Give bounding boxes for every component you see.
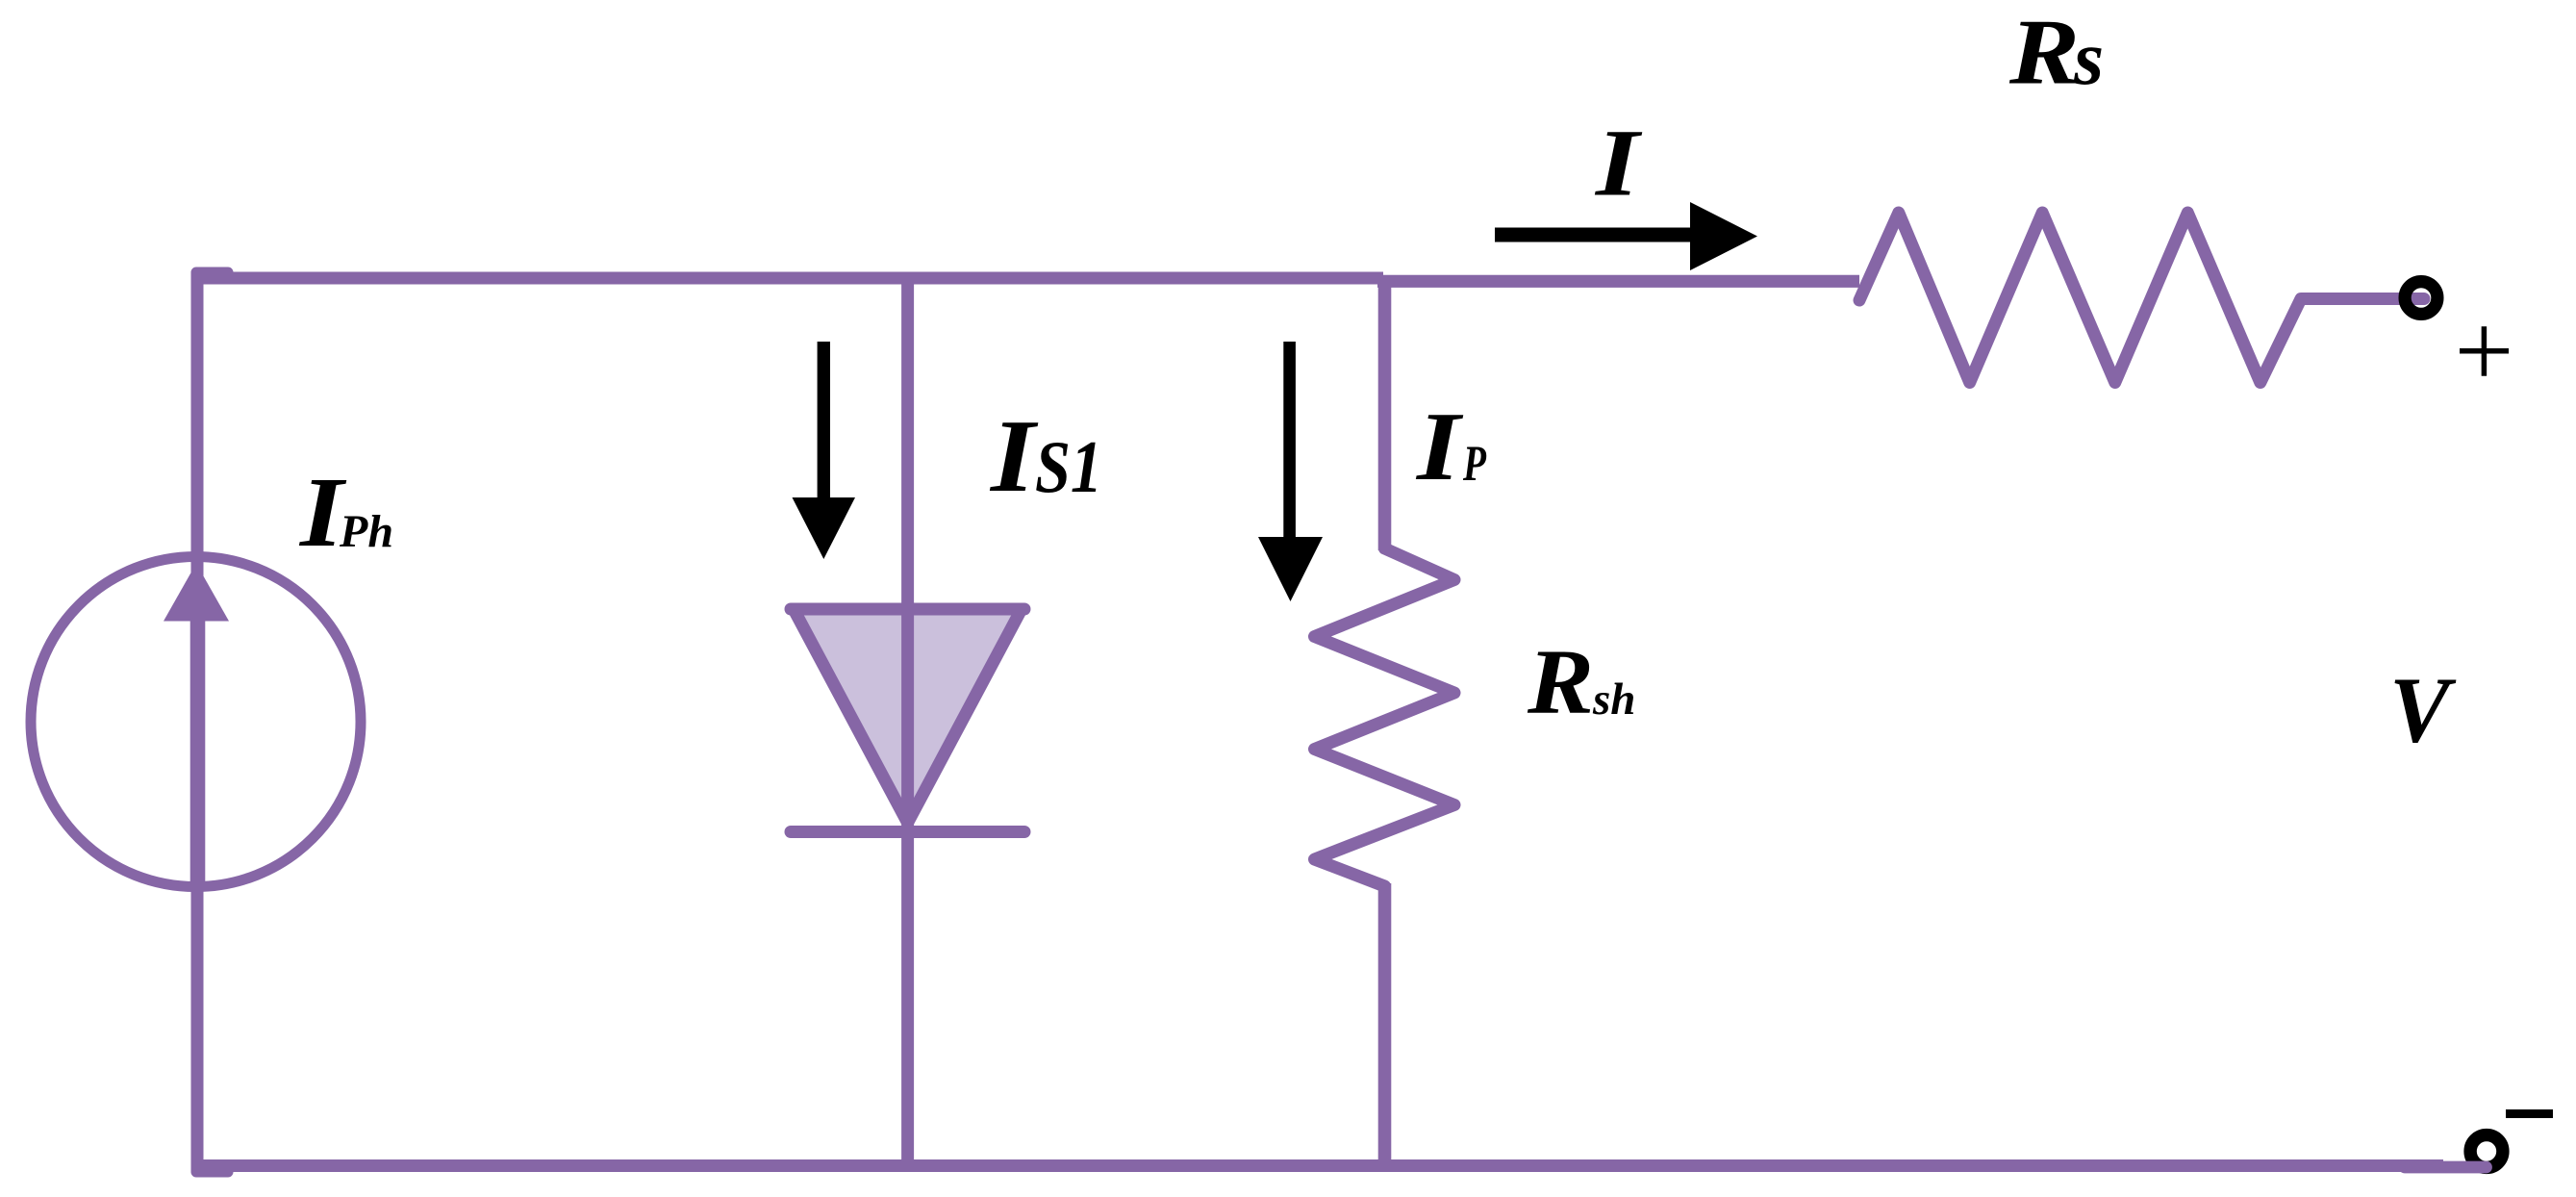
svg-text:R: R xyxy=(1527,630,1594,733)
arrow IS1 head xyxy=(793,497,856,559)
diode D1 triangle fill xyxy=(794,609,1022,823)
wire: bottom wire end segment over ring xyxy=(2405,1161,2487,1174)
svg-text:I: I xyxy=(989,399,1040,514)
svg-text:S1: S1 xyxy=(1035,425,1102,508)
wire: bottom-left corner cap bump xyxy=(191,1167,234,1178)
svg-text:R: R xyxy=(2008,1,2080,105)
current source IPh circle xyxy=(31,557,361,887)
svg-text:I: I xyxy=(1595,110,1643,216)
terminal - ring xyxy=(2470,1135,2503,1168)
svg-text:sh: sh xyxy=(1592,675,1635,725)
diode D1 cathode bar xyxy=(791,826,1024,838)
plus sign xyxy=(2460,326,2509,376)
arrow IP (black, down) shaft xyxy=(1283,342,1296,538)
resistor Rs zigzag xyxy=(1859,213,2424,383)
arrow I (black, right) shaft xyxy=(1495,228,1691,242)
svg-text:P: P xyxy=(1462,436,1486,492)
wire: Rsh branch top vertical xyxy=(1378,275,1392,550)
current source arrow shaft xyxy=(190,616,206,886)
arrow IS1 (black, down) shaft xyxy=(818,342,830,498)
wire: diode branch vertical xyxy=(901,272,914,1166)
arrow I head xyxy=(1690,202,1757,270)
diode D1 right edge xyxy=(908,609,1022,823)
minus sign xyxy=(2506,1109,2553,1118)
diode D1 anode top bar xyxy=(791,603,1024,616)
svg-text:V: V xyxy=(2389,659,2457,763)
wire: Rsh branch bottom vertical xyxy=(1378,883,1392,1166)
wire: top-left corner cap bump xyxy=(191,267,234,278)
terminal + ring xyxy=(2405,282,2437,315)
wire: outer loop (left vertical, top-left horizontal, bottom horizontal) xyxy=(197,278,2443,1166)
svg-text:s: s xyxy=(2073,16,2104,101)
svg-text:Ph: Ph xyxy=(339,506,393,557)
diode D1 left edge xyxy=(794,609,908,823)
current source arrowhead (up) xyxy=(164,564,229,622)
wire: top bus right segment to Rs xyxy=(1377,275,1859,288)
resistor Rsh zigzag xyxy=(1315,548,1455,886)
arrow IP head xyxy=(1258,537,1323,601)
svg-text:I: I xyxy=(1416,393,1464,501)
